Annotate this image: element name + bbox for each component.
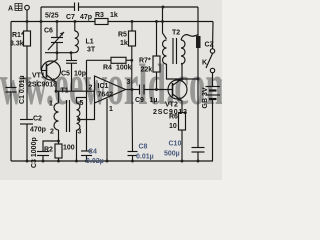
resistor R6 — [179, 113, 186, 131]
jack CZ — [196, 36, 201, 48]
svg-text:R4: R4 — [103, 65, 112, 72]
svg-text:T2: T2 — [172, 30, 180, 37]
junction — [56, 51, 59, 54]
svg-text:3V: 3V — [202, 87, 209, 96]
svg-text:0.01µ: 0.01µ — [136, 154, 154, 161]
junction — [56, 20, 59, 23]
svg-text:C10: C10 — [169, 141, 182, 148]
svg-text:2: 2 — [50, 129, 54, 136]
svg-text:0.02µ: 0.02µ — [86, 158, 104, 165]
junction — [197, 78, 200, 81]
junction — [26, 20, 29, 23]
transformer T2 — [163, 7, 167, 39]
junction — [74, 20, 77, 23]
svg-text:L1: L1 — [86, 39, 94, 46]
junction — [181, 160, 184, 163]
svg-text:VT2: VT2 — [165, 102, 178, 109]
svg-text:CZ: CZ — [205, 42, 215, 49]
svg-text:47p: 47p — [80, 14, 92, 21]
IC1 pin 3 output wire — [126, 89, 140, 91]
svg-text:C5: C5 — [61, 71, 70, 78]
junction — [57, 140, 60, 143]
svg-text:T1: T1 — [61, 88, 69, 95]
capacitor C2 — [20, 119, 33, 121]
svg-text:C3 1000p: C3 1000p — [31, 137, 38, 168]
wire bottom rail — [11, 160, 213, 162]
svg-text:R5: R5 — [118, 32, 127, 39]
junction — [57, 160, 60, 163]
svg-text:A: A — [8, 6, 13, 13]
wire R4/R5 node down — [131, 60, 133, 89]
capacitor C7 — [74, 3, 76, 12]
svg-text:1k: 1k — [120, 40, 128, 47]
svg-text:C8: C8 — [139, 144, 148, 151]
svg-text:C1 0.01µ: C1 0.01µ — [19, 75, 26, 104]
resistor R7 — [156, 22, 158, 57]
capacitor C9 — [139, 85, 141, 95]
svg-text:R7*: R7* — [139, 58, 151, 65]
capacitor C10 — [192, 147, 205, 149]
capacitor C1 — [6, 87, 17, 89]
svg-text:10: 10 — [169, 123, 177, 130]
wire collector node — [182, 78, 198, 80]
svg-text:5: 5 — [80, 100, 84, 107]
battery GB 3V — [206, 86, 221, 88]
svg-text:GB: GB — [202, 98, 209, 109]
transistor VT1 — [42, 61, 61, 80]
IC1 pin 1 wire — [106, 99, 108, 162]
junction — [181, 78, 184, 81]
svg-text:5/25: 5/25 — [45, 13, 59, 20]
svg-text:C9: C9 — [135, 97, 144, 104]
op-amp IC1 7642 — [95, 76, 126, 103]
svg-text:100k: 100k — [116, 65, 132, 72]
svg-text:500µ: 500µ — [164, 151, 180, 158]
svg-text:VT1: VT1 — [32, 73, 45, 80]
inductor L1 — [74, 22, 76, 32]
junction — [26, 160, 29, 163]
svg-text:R1*: R1* — [12, 32, 24, 39]
svg-text:IC1: IC1 — [98, 83, 109, 90]
junction — [131, 88, 134, 91]
junction — [131, 20, 134, 23]
wire top rail y7 — [41, 6, 74, 8]
capacitor C3 — [43, 141, 59, 152]
junction — [85, 160, 88, 163]
svg-text:R6: R6 — [169, 114, 178, 121]
terminal A — [25, 5, 30, 10]
wire x41 vertical — [40, 7, 42, 71]
wire left branch — [10, 22, 12, 88]
junction — [197, 160, 200, 163]
svg-text:3T: 3T — [87, 47, 96, 54]
junction — [40, 20, 43, 23]
junction — [162, 6, 165, 9]
junction — [130, 59, 133, 62]
wire emitter node to IC pin 2 — [56, 90, 95, 92]
resistor R3 — [95, 19, 108, 25]
svg-text:C4: C4 — [88, 149, 97, 156]
svg-text:3: 3 — [127, 79, 131, 86]
wire main rail y21.5 — [11, 21, 95, 23]
switch K — [212, 22, 215, 49]
junction — [155, 20, 158, 23]
junction — [75, 160, 78, 163]
svg-text:1µ: 1µ — [150, 97, 158, 104]
resistor R4 — [87, 59, 112, 61]
junction — [42, 160, 45, 163]
wire x198 jack branch — [197, 7, 199, 36]
svg-text:3: 3 — [78, 129, 82, 136]
svg-text:1: 1 — [109, 106, 113, 113]
junction — [131, 160, 134, 163]
junction — [155, 88, 158, 91]
resistor R1 — [24, 31, 31, 46]
svg-text:3.3k: 3.3k — [10, 41, 24, 48]
wire tank bottom node — [45, 52, 75, 54]
svg-text:100: 100 — [63, 145, 75, 152]
svg-text:7642: 7642 — [98, 92, 114, 99]
svg-text:2SC9018: 2SC9018 — [28, 82, 57, 89]
capacitor C8 — [131, 90, 134, 152]
svg-text:1: 1 — [49, 101, 53, 108]
resistor R5 — [131, 22, 133, 32]
junction — [70, 51, 73, 54]
svg-text:C7: C7 — [66, 14, 75, 21]
svg-text:1k: 1k — [110, 12, 118, 19]
svg-text:R2: R2 — [44, 147, 53, 154]
svg-text:2: 2 — [89, 85, 93, 92]
junction — [106, 160, 109, 163]
junction — [55, 90, 58, 93]
svg-text:R3: R3 — [95, 12, 104, 19]
watermark www.eeworld.com.cn — [0, 54, 274, 118]
capacitor C5 — [70, 53, 73, 61]
junction — [161, 20, 164, 23]
svg-text:C2: C2 — [33, 116, 42, 123]
transistor VT2 — [168, 80, 187, 99]
capacitor C4 — [81, 150, 92, 152]
junction — [77, 118, 80, 121]
wire pin2/C4 branch — [86, 60, 88, 151]
capacitor C6 trimmer — [56, 22, 58, 38]
svg-text:470p: 470p — [30, 127, 46, 134]
transformer T1 — [58, 91, 60, 103]
svg-text:C6: C6 — [44, 28, 53, 35]
svg-text:K: K — [202, 60, 207, 67]
svg-text:22k: 22k — [141, 67, 153, 74]
svg-text:10p: 10p — [74, 71, 86, 78]
resistor R2 — [55, 144, 62, 158]
